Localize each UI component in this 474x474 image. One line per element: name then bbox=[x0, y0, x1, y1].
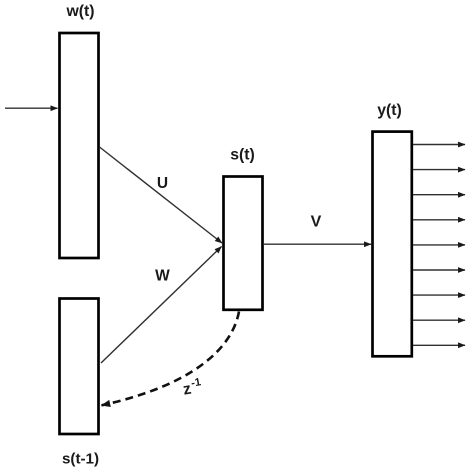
svg-text:y(t): y(t) bbox=[377, 102, 402, 119]
layer w(t) bbox=[60, 33, 99, 258]
output arrow 9 bbox=[413, 344, 465, 346]
output arrow 7 bbox=[413, 294, 465, 296]
label z^-1 bbox=[181, 376, 203, 398]
svg-text:-1: -1 bbox=[190, 376, 202, 390]
svg-text:s(t-1): s(t-1) bbox=[62, 451, 99, 468]
svg-text:w(t): w(t) bbox=[65, 3, 94, 20]
weight arrow W bbox=[101, 247, 222, 364]
output arrow 5 bbox=[413, 244, 465, 246]
svg-text:U: U bbox=[157, 175, 168, 192]
output arrow 2 bbox=[413, 169, 465, 171]
svg-text:V: V bbox=[311, 214, 322, 231]
feedback delay arrow z-1 (dashed) bbox=[102, 312, 240, 406]
layer y(t) bbox=[373, 132, 412, 357]
svg-text:W: W bbox=[155, 268, 170, 285]
layer s(t-1) bbox=[60, 299, 99, 435]
output arrow 6 bbox=[413, 269, 465, 271]
input arrow bbox=[5, 107, 58, 109]
output arrow 3 bbox=[413, 194, 465, 196]
weight arrow U bbox=[100, 147, 223, 243]
output arrow 1 bbox=[413, 144, 465, 146]
output arrow 8 bbox=[413, 319, 465, 321]
weight arrow V bbox=[263, 243, 371, 245]
output arrow 4 bbox=[413, 219, 465, 221]
svg-text:s(t): s(t) bbox=[230, 147, 255, 164]
layer s(t) bbox=[224, 177, 263, 310]
